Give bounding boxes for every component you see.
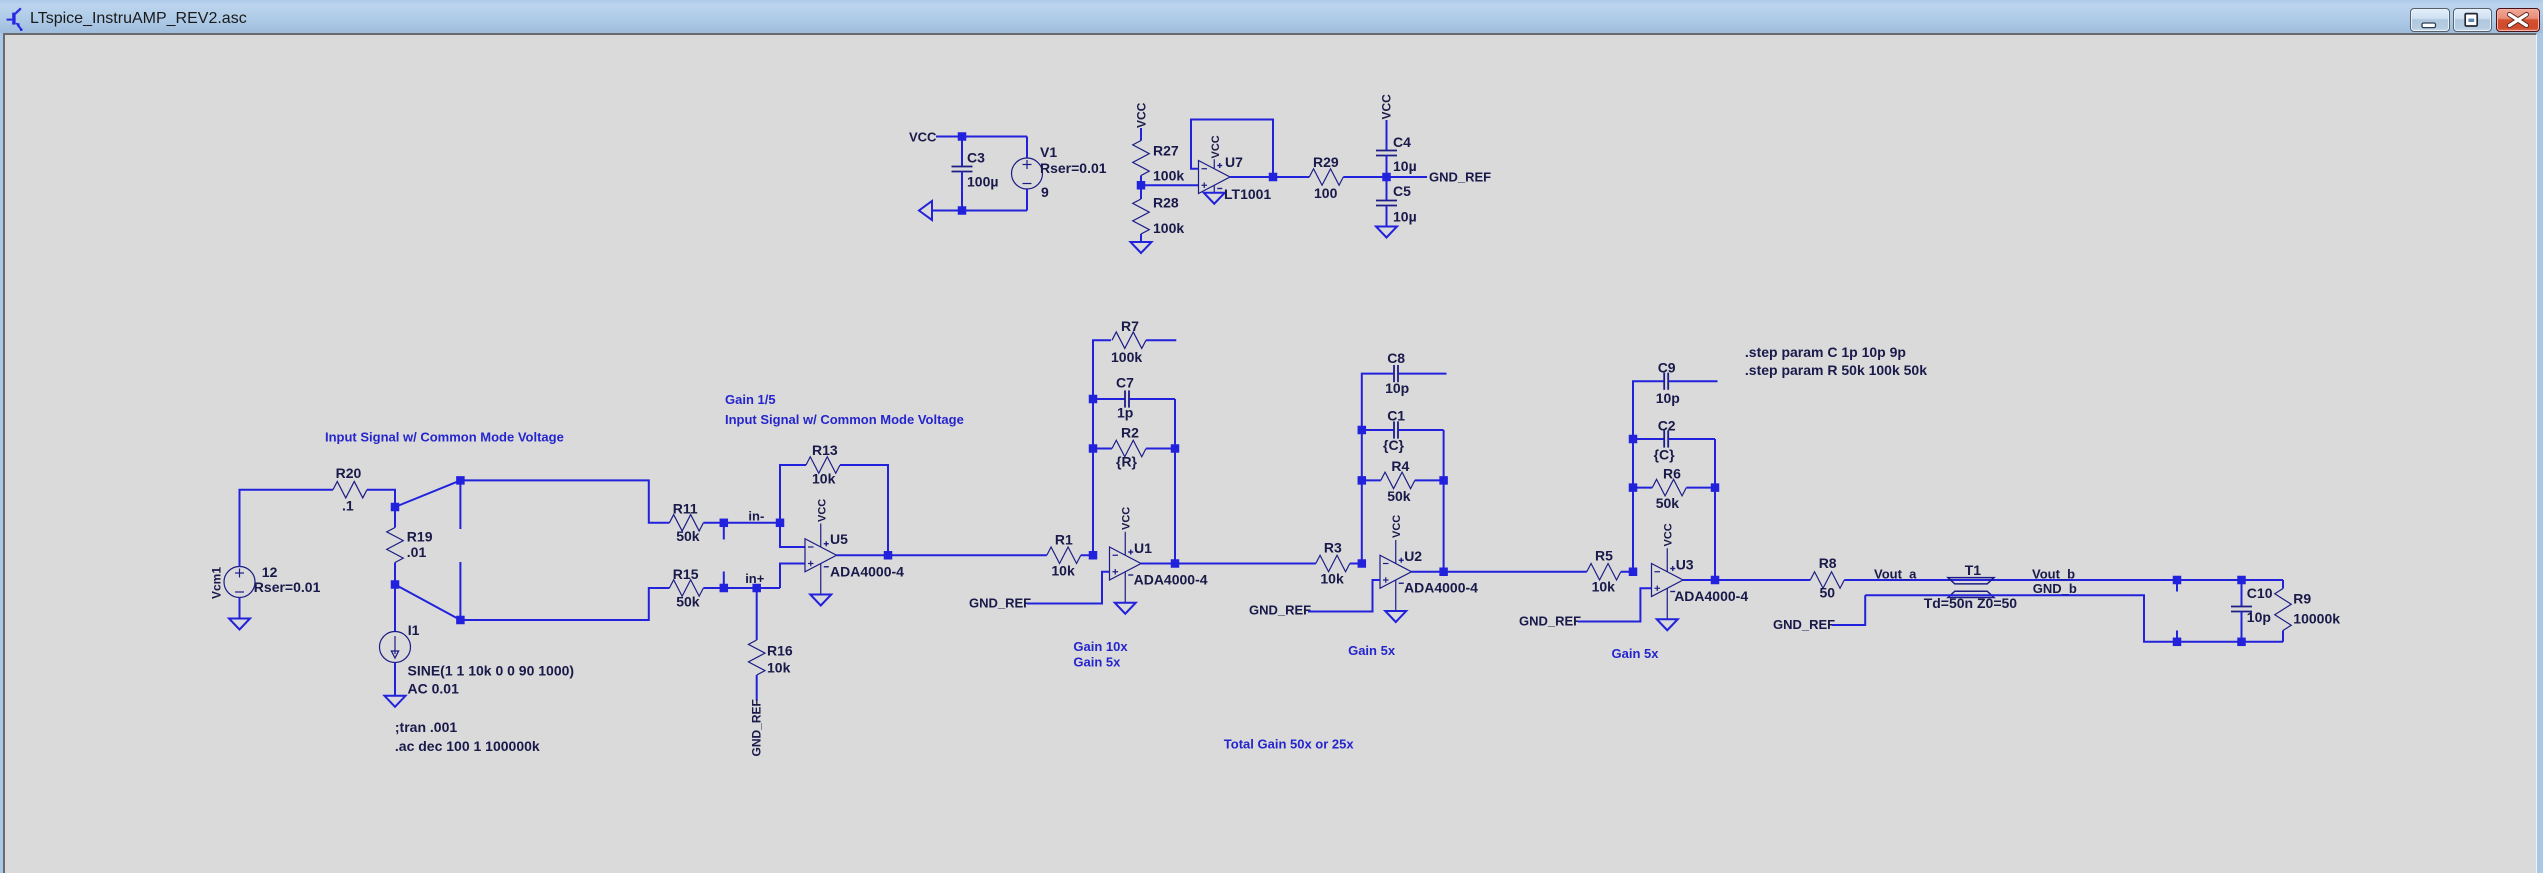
svg-text:R20: R20 xyxy=(336,465,362,481)
svg-text:ADA4000-4: ADA4000-4 xyxy=(830,564,904,580)
svg-text:R19: R19 xyxy=(407,529,433,545)
svg-text:GND_REF: GND_REF xyxy=(969,596,1031,611)
svg-text:10k: 10k xyxy=(1320,571,1344,587)
svg-text:10000k: 10000k xyxy=(2293,610,2340,626)
svg-text:R2: R2 xyxy=(1121,425,1139,441)
svg-text:C7: C7 xyxy=(1116,375,1134,391)
svg-text:Gain 5x: Gain 5x xyxy=(1612,646,1660,661)
svg-text:VCC: VCC xyxy=(816,499,828,522)
svg-text:C4: C4 xyxy=(1393,134,1411,150)
svg-text:ADA4000-4: ADA4000-4 xyxy=(1674,588,1748,604)
svg-text:R8: R8 xyxy=(1819,555,1837,571)
svg-text:100: 100 xyxy=(1314,185,1338,201)
svg-text:SINE(1 1 10k 0 0 90 1000): SINE(1 1 10k 0 0 90 1000) xyxy=(408,663,575,679)
svg-text:R9: R9 xyxy=(2293,591,2311,607)
svg-text:T1: T1 xyxy=(1965,562,1982,578)
svg-text:.01: .01 xyxy=(407,544,427,560)
svg-text:12: 12 xyxy=(262,564,278,580)
svg-text:.step param C 1p 10p 9p: .step param C 1p 10p 9p xyxy=(1745,344,1906,360)
svg-text:10k: 10k xyxy=(1051,563,1075,579)
svg-text:V1: V1 xyxy=(1040,144,1057,160)
svg-text:AC 0.01: AC 0.01 xyxy=(408,681,460,697)
svg-text:GND_REF: GND_REF xyxy=(1249,603,1311,618)
svg-text:VCC: VCC xyxy=(1121,507,1133,530)
svg-text:in-: in- xyxy=(748,509,764,524)
svg-text:GND_b: GND_b xyxy=(2033,581,2077,596)
svg-text:C8: C8 xyxy=(1387,350,1405,366)
svg-text:U3: U3 xyxy=(1676,557,1694,573)
svg-text:R5: R5 xyxy=(1595,548,1613,564)
svg-text:C5: C5 xyxy=(1393,183,1411,199)
svg-text:ADA4000-4: ADA4000-4 xyxy=(1134,572,1208,588)
svg-text:Input Signal w/ Common Mode Vo: Input Signal w/ Common Mode Voltage xyxy=(725,412,964,427)
svg-text:C3: C3 xyxy=(967,150,985,166)
svg-text:R13: R13 xyxy=(812,442,838,458)
svg-text:Gain 5x: Gain 5x xyxy=(1348,643,1396,658)
svg-text:.1: .1 xyxy=(342,498,354,514)
svg-text:VCC: VCC xyxy=(909,130,937,145)
svg-text:R16: R16 xyxy=(767,643,793,659)
svg-text:Vout_a: Vout_a xyxy=(1874,566,1917,581)
svg-text:10p: 10p xyxy=(1656,390,1680,406)
svg-text:R11: R11 xyxy=(673,501,698,517)
svg-text:50k: 50k xyxy=(676,593,700,609)
svg-text:C9: C9 xyxy=(1658,359,1676,375)
svg-text:VCC: VCC xyxy=(1663,523,1675,546)
svg-text:Vout_b: Vout_b xyxy=(2032,566,2075,581)
svg-text:C1: C1 xyxy=(1387,408,1405,424)
svg-text:GND_REF: GND_REF xyxy=(1773,617,1835,632)
svg-text:Input Signal w/ Common Mode Vo: Input Signal w/ Common Mode Voltage xyxy=(325,430,564,445)
svg-text:.step param R 50k 100k 50k: .step param R 50k 100k 50k xyxy=(1745,362,1927,378)
svg-text:R28: R28 xyxy=(1153,195,1179,211)
svg-text:R1: R1 xyxy=(1055,532,1073,548)
svg-text:Gain 10x: Gain 10x xyxy=(1073,639,1128,654)
svg-text:10k: 10k xyxy=(767,660,791,676)
svg-text:ADA4000-4: ADA4000-4 xyxy=(1404,580,1478,596)
svg-text:GND_REF: GND_REF xyxy=(750,699,764,756)
svg-text:VCC: VCC xyxy=(1380,94,1394,120)
svg-text:C10: C10 xyxy=(2247,585,2273,601)
svg-text:;tran .001: ;tran .001 xyxy=(395,719,457,735)
svg-text:VCC: VCC xyxy=(1391,515,1403,538)
svg-text:50k: 50k xyxy=(1656,495,1680,511)
svg-text:10k: 10k xyxy=(1592,579,1616,595)
svg-text:.ac dec 100 1 100000k: .ac dec 100 1 100000k xyxy=(395,738,540,754)
svg-text:R27: R27 xyxy=(1153,143,1179,159)
svg-text:GND_REF: GND_REF xyxy=(1429,170,1491,185)
svg-text:R3: R3 xyxy=(1324,540,1342,556)
svg-text:I1: I1 xyxy=(408,622,420,638)
svg-text:R6: R6 xyxy=(1663,466,1681,482)
svg-text:U7: U7 xyxy=(1225,154,1243,170)
svg-text:{C}: {C} xyxy=(1383,437,1405,453)
svg-text:9: 9 xyxy=(1041,184,1049,200)
svg-text:R4: R4 xyxy=(1391,458,1409,474)
svg-text:U2: U2 xyxy=(1404,548,1422,564)
svg-text:Vcm1: Vcm1 xyxy=(210,567,224,599)
svg-text:100k: 100k xyxy=(1111,349,1142,365)
svg-text:10p: 10p xyxy=(1385,380,1409,396)
svg-text:50k: 50k xyxy=(676,528,700,544)
svg-text:R29: R29 xyxy=(1313,154,1339,170)
svg-text:100k: 100k xyxy=(1153,220,1184,236)
svg-text:Gain 5x: Gain 5x xyxy=(1073,654,1121,669)
svg-text:100k: 100k xyxy=(1153,168,1184,184)
svg-text:C2: C2 xyxy=(1658,418,1676,434)
svg-text:Rser=0.01: Rser=0.01 xyxy=(1040,160,1107,176)
svg-text:Gain 1/5: Gain 1/5 xyxy=(725,392,776,407)
svg-text:{C}: {C} xyxy=(1654,446,1676,462)
svg-text:10µ: 10µ xyxy=(1393,158,1417,174)
svg-text:50k: 50k xyxy=(1387,488,1411,504)
svg-text:1p: 1p xyxy=(1117,405,1133,421)
svg-text:LT1001: LT1001 xyxy=(1224,186,1271,202)
svg-text:10p: 10p xyxy=(2247,609,2271,625)
svg-text:50: 50 xyxy=(1820,585,1836,601)
svg-text:Rser=0.01: Rser=0.01 xyxy=(254,579,321,595)
svg-text:Td=50n Z0=50: Td=50n Z0=50 xyxy=(1924,595,2018,611)
svg-text:{R}: {R} xyxy=(1116,454,1138,470)
svg-text:R7: R7 xyxy=(1121,318,1139,334)
svg-text:U1: U1 xyxy=(1134,540,1152,556)
svg-text:VCC: VCC xyxy=(1210,135,1222,158)
svg-text:100µ: 100µ xyxy=(967,174,998,190)
svg-text:10µ: 10µ xyxy=(1393,209,1417,225)
svg-text:R15: R15 xyxy=(673,566,699,582)
svg-text:U5: U5 xyxy=(830,531,848,547)
svg-text:10k: 10k xyxy=(812,471,836,487)
svg-text:Total Gain 50x or 25x: Total Gain 50x or 25x xyxy=(1224,736,1355,751)
svg-text:GND_REF: GND_REF xyxy=(1519,614,1581,629)
svg-text:VCC: VCC xyxy=(1134,102,1148,128)
